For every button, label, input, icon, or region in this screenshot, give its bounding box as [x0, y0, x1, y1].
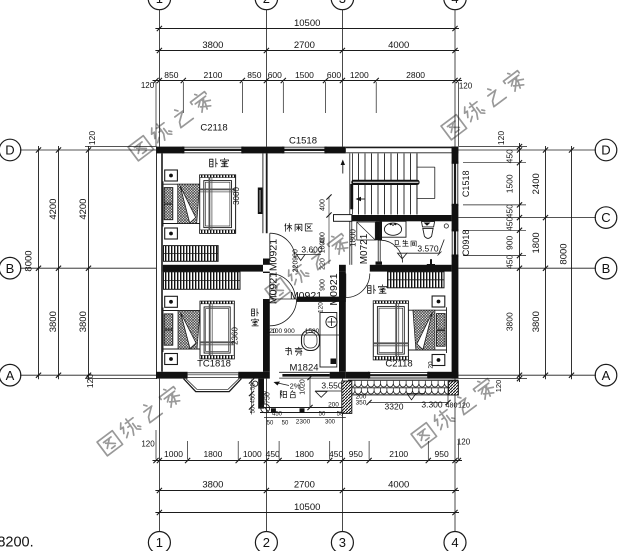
dim top axis spans 3800 2700 4000	[155, 50, 459, 52]
window bottom C2118 glazing	[369, 371, 428, 373]
svg-text:8000: 8000	[24, 250, 35, 271]
bedroom2 bed nightstands	[165, 296, 178, 307]
label study 书房	[285, 347, 291, 355]
svg-text:120: 120	[496, 131, 506, 145]
svg-text:3800: 3800	[505, 312, 515, 331]
svg-text:120: 120	[318, 302, 325, 313]
svg-text:B: B	[602, 261, 611, 276]
svg-text:2: 2	[263, 535, 270, 550]
svg-text:850: 850	[247, 70, 261, 80]
bedroom3 bed mattress and folded blanket	[408, 309, 446, 311]
door study	[270, 298, 297, 300]
svg-text:1500: 1500	[295, 70, 314, 80]
bathroom toilet	[422, 222, 435, 227]
label bedroom3 卧室	[368, 285, 376, 293]
bedroom3 bed nightstands	[432, 296, 445, 307]
dim right 2400 1800 3800	[545, 146, 547, 379]
svg-text:600: 600	[268, 70, 282, 80]
svg-text:3800: 3800	[202, 479, 223, 490]
dim left overall 8000	[38, 146, 40, 379]
svg-text:M1824: M1824	[289, 363, 318, 374]
axis circles top (1 2 3 4)	[148, 0, 170, 10]
svg-text:480: 480	[446, 403, 458, 410]
wall axis3 vertical (study / bedroom3)	[339, 272, 346, 372]
roof tile band	[348, 379, 458, 381]
svg-text:1: 1	[156, 535, 163, 550]
svg-text:50: 50	[282, 421, 289, 427]
svg-text:3080: 3080	[232, 187, 241, 205]
svg-text:2100: 2100	[389, 449, 408, 459]
svg-text:8200.: 8200.	[0, 535, 34, 551]
study dims 120 100 900 1580	[267, 334, 340, 336]
svg-text:50: 50	[267, 421, 274, 427]
svg-text:3.570: 3.570	[417, 243, 439, 253]
svg-text:A: A	[602, 368, 611, 383]
svg-text:3800: 3800	[48, 311, 59, 332]
svg-text:10500: 10500	[294, 18, 320, 29]
axis grid horizontal lines	[20, 149, 156, 151]
label balcony 阳台	[280, 391, 286, 398]
svg-text:50: 50	[319, 412, 326, 418]
svg-text:220: 220	[293, 261, 300, 273]
svg-text:450: 450	[251, 393, 257, 404]
svg-text:M0721: M0721	[359, 233, 370, 264]
svg-text:4: 4	[451, 0, 458, 6]
svg-text:3800: 3800	[78, 311, 89, 332]
svg-text:C: C	[601, 210, 610, 225]
svg-text:2100: 2100	[203, 70, 222, 80]
balcony walls and railing	[258, 379, 264, 409]
svg-text:C2118: C2118	[385, 359, 412, 370]
svg-text:10500: 10500	[294, 502, 320, 513]
door M0921 bedroom2	[269, 274, 271, 300]
bedroom2 bed quilt	[200, 301, 234, 359]
bathroom sink	[380, 221, 406, 237]
svg-text:120: 120	[85, 374, 95, 388]
svg-text:C0918: C0918	[461, 230, 471, 257]
svg-text:2400: 2400	[531, 173, 542, 194]
svg-text:220: 220	[320, 258, 327, 270]
bedroom3 bed quilt	[373, 301, 408, 360]
wall right (black segments)	[452, 147, 459, 163]
balcony dim chain	[264, 417, 346, 419]
svg-text:1580: 1580	[305, 328, 320, 335]
svg-text:120: 120	[87, 131, 97, 145]
wall study top	[297, 297, 346, 302]
svg-text:120: 120	[458, 403, 470, 410]
dim left 4200 3800 double chain	[58, 146, 60, 379]
svg-text:120: 120	[459, 82, 473, 91]
svg-text:2360: 2360	[231, 327, 240, 345]
bedroom1 bed nightstands	[165, 170, 178, 181]
svg-text:2: 2	[263, 0, 270, 6]
label leisure 休闲区	[285, 223, 292, 231]
balcony drain pipes	[253, 381, 258, 386]
svg-text:120: 120	[457, 438, 471, 447]
wall axis2 vertical (door openings)	[262, 153, 264, 233]
svg-text:D: D	[601, 143, 610, 158]
svg-text:D: D	[5, 143, 14, 158]
svg-text:4000: 4000	[388, 479, 409, 490]
svg-text:950: 950	[349, 449, 363, 459]
svg-text:120: 120	[266, 328, 277, 335]
door M0921 bedroom1	[269, 233, 271, 258]
door M0921 bedroom3	[345, 274, 347, 298]
label bedroom2 卧室	[252, 309, 259, 316]
svg-text:600: 600	[327, 70, 341, 80]
svg-text:900: 900	[320, 279, 327, 291]
svg-text:50: 50	[251, 383, 257, 390]
svg-text:400: 400	[320, 199, 327, 211]
bedroom1 wardrobe	[164, 246, 219, 262]
svg-text:2700: 2700	[294, 479, 315, 490]
bay window TC1818 trapezoid	[184, 379, 242, 392]
svg-text:3.550: 3.550	[321, 381, 343, 391]
wall top (black segments)	[156, 147, 183, 154]
svg-text:300: 300	[325, 420, 336, 426]
bedroom1 bed mattress and folded blanket	[163, 183, 200, 185]
svg-text:M0921: M0921	[268, 272, 280, 304]
svg-text:1800: 1800	[349, 229, 358, 247]
axis circles left (D B A)	[0, 139, 21, 161]
windows top C2118 C1518 glazing	[183, 146, 242, 148]
svg-text:450: 450	[505, 149, 515, 163]
roof dims 3320 3.300	[369, 402, 448, 404]
stair treads	[349, 153, 351, 214]
svg-text:1200: 1200	[350, 70, 369, 80]
svg-text:3800: 3800	[202, 40, 223, 51]
dim top overall 10500	[155, 28, 459, 30]
svg-text:1800: 1800	[295, 449, 314, 459]
label bathroom 卫生间	[394, 241, 400, 247]
svg-text:C2118: C2118	[200, 123, 227, 134]
wall top above stairwell (double line)	[346, 146, 459, 148]
wall stair-side niche (thin)	[349, 221, 351, 264]
svg-text:M0921: M0921	[328, 273, 340, 305]
svg-text:3320: 3320	[385, 402, 404, 412]
dim bottom axis spans 3800 2700 4000	[155, 490, 459, 492]
svg-text:850: 850	[164, 70, 178, 80]
bedroom3 bed pillows	[437, 314, 446, 330]
svg-text:450: 450	[505, 204, 515, 218]
stair direction arrows	[342, 162, 344, 174]
watermark center	[265, 278, 291, 303]
label bedroom1 卧室	[210, 159, 218, 167]
watermark top-right	[441, 115, 467, 140]
bedroom2 wardrobe	[164, 272, 241, 290]
svg-text:1020: 1020	[300, 379, 307, 395]
svg-text:120: 120	[141, 81, 155, 90]
svg-text:450: 450	[272, 412, 283, 418]
svg-text:4200: 4200	[78, 199, 89, 220]
svg-text:950: 950	[435, 449, 449, 459]
svg-text:1000: 1000	[320, 238, 327, 254]
svg-text:1000: 1000	[164, 449, 183, 459]
dim right chain 120 450 1500 450 450 900 450 3800 120	[519, 143, 521, 382]
svg-text:8000: 8000	[559, 243, 570, 264]
svg-text:200: 200	[328, 402, 339, 409]
svg-text:120: 120	[494, 380, 503, 393]
svg-text:1500: 1500	[505, 174, 515, 193]
closet in niche	[357, 222, 376, 240]
svg-text:1800: 1800	[203, 449, 222, 459]
wall bottom (black segments, M1824 opening)	[156, 372, 188, 379]
bedroom1 bed pillows	[164, 188, 173, 204]
svg-text:TC1818: TC1818	[197, 359, 231, 370]
svg-text:4000: 4000	[388, 40, 409, 51]
dim bottom overall 10500	[155, 512, 459, 514]
svg-text:3: 3	[339, 535, 346, 550]
svg-text:C1518: C1518	[461, 171, 471, 198]
wall row B right (bathroom floor, door opening)	[339, 265, 346, 272]
svg-text:900: 900	[505, 236, 515, 250]
bedroom2 bed pillows	[164, 314, 173, 329]
svg-text:2300: 2300	[296, 419, 311, 426]
study desk and stool	[320, 313, 337, 368]
svg-text:B: B	[6, 261, 15, 276]
bathroom floor drain and shower head	[427, 264, 435, 267]
bedroom3 wardrobe	[388, 272, 445, 288]
svg-text:M0921: M0921	[268, 239, 280, 271]
dim bottom chain 120 1000 1800 1000 450 1800 450 950 2100 950 120	[153, 460, 463, 462]
study chair	[302, 330, 320, 351]
svg-text:1000: 1000	[243, 449, 262, 459]
watermark bottom-right	[411, 423, 437, 448]
svg-text:4200: 4200	[48, 199, 59, 220]
dim right overall 8000	[571, 146, 573, 379]
svg-text:4: 4	[451, 535, 458, 550]
svg-text:1: 1	[156, 0, 163, 6]
axis circles bottom (1 2 3 4)	[148, 532, 170, 551]
svg-text:C1518: C1518	[289, 136, 317, 147]
svg-text:1800: 1800	[531, 232, 542, 253]
watermark top-left	[128, 136, 154, 161]
windows right C1518 C0918 glazing	[451, 163, 453, 205]
svg-text:50: 50	[337, 412, 344, 418]
svg-text:120: 120	[141, 440, 155, 449]
watermark bottom-left	[97, 431, 123, 456]
svg-text:3800: 3800	[531, 311, 542, 332]
wall bathroom left (door opening)	[376, 221, 383, 240]
svg-text:450: 450	[505, 255, 515, 269]
roof posts hatched	[342, 381, 352, 413]
svg-text:50: 50	[251, 406, 257, 413]
dim top chain 120 850 2100 850 600 1500 600 1200 2800 120	[153, 80, 463, 82]
balcony slope 2% arrow	[276, 383, 290, 386]
axis circles right (D C B A)	[595, 139, 617, 161]
svg-text:450: 450	[329, 449, 343, 459]
door M0721 swing	[378, 240, 380, 262]
svg-text:450: 450	[505, 217, 515, 231]
svg-text:150: 150	[263, 390, 269, 401]
balcony posts and 1020 dim line	[309, 378, 311, 408]
axis grid vertical lines	[158, 10, 160, 147]
svg-text:M0921: M0921	[290, 290, 322, 302]
svg-text:3: 3	[339, 0, 346, 6]
svg-text:A: A	[6, 368, 15, 383]
svg-text:20: 20	[428, 361, 435, 369]
bedroom1 wall cabinet	[258, 188, 263, 215]
wall row B left (between bedrooms)	[163, 265, 263, 272]
wall below stairs / bathroom top	[334, 215, 352, 222]
bedroom2 bed mattress and folded blanket	[163, 310, 200, 312]
stair handrail	[351, 180, 419, 185]
svg-text:350: 350	[356, 400, 367, 407]
svg-text:900: 900	[293, 249, 300, 261]
svg-text:3.300: 3.300	[421, 400, 443, 410]
svg-text:450: 450	[266, 449, 280, 459]
svg-text:2800: 2800	[406, 70, 425, 80]
bedroom1 bed quilt	[200, 175, 236, 233]
svg-text:2700: 2700	[294, 40, 315, 51]
wall left (double line)	[156, 147, 158, 379]
